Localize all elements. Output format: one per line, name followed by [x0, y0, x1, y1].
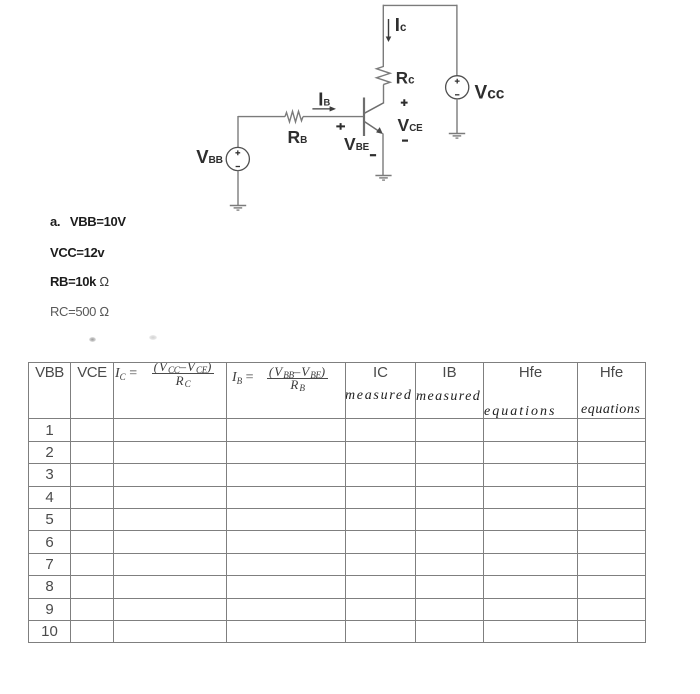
- ground (emitter): [375, 176, 391, 181]
- label - (VBE minus): [370, 154, 376, 156]
- data table: [28, 362, 646, 643]
- label - (VCE minus): [402, 140, 408, 142]
- wire RB to transistor base: [303, 116, 364, 118]
- label Ic: [395, 14, 407, 35]
- current arrow Ic: [386, 19, 392, 42]
- wire top horizontal (collector branch to Vcc branch): [383, 4, 457, 6]
- transistor emitter arrowhead: [376, 127, 383, 134]
- wire Vcc branch vertical: [456, 5, 458, 76]
- resistor RB: [285, 111, 303, 122]
- label VCE: [398, 115, 424, 135]
- svg-text:IB: IB: [318, 89, 330, 110]
- wire RC bottom to collector: [383, 85, 385, 103]
- source VCC polarity marks: [455, 79, 460, 95]
- svg-text:RB: RB: [288, 127, 308, 147]
- wire emitter vertical: [382, 133, 384, 175]
- wire VBB branch vertical top: [237, 116, 239, 147]
- ground (VCC): [449, 134, 465, 139]
- label RC: [396, 69, 415, 88]
- label VBE: [344, 134, 370, 154]
- source VBB polarity marks: [235, 150, 240, 166]
- label IB: [318, 89, 330, 110]
- svg-text:VBB: VBB: [196, 146, 222, 167]
- parameter text block: [50, 214, 126, 229]
- current arrow IB: [312, 106, 336, 111]
- stray pen smudge 2: [149, 335, 157, 340]
- transistor Q1: [364, 98, 384, 137]
- ground (VBB): [230, 206, 246, 211]
- label VBB: [196, 146, 222, 167]
- source VCC circle: [446, 76, 469, 99]
- wire VCC to ground: [456, 99, 458, 133]
- label RB: [288, 127, 308, 147]
- wire collector branch vertical (top to RC): [382, 5, 384, 67]
- svg-text:Vcc: Vcc: [475, 83, 505, 104]
- wire base node to RB: [238, 116, 285, 118]
- label Vcc: [475, 83, 505, 104]
- svg-text:Rc: Rc: [396, 69, 415, 88]
- svg-text:VBE: VBE: [344, 134, 370, 154]
- svg-text:Ic: Ic: [395, 14, 407, 35]
- wire VBB to ground: [237, 171, 239, 206]
- source VBB circle: [226, 147, 249, 170]
- label + (VBE plus): [336, 123, 345, 130]
- svg-text:VCE: VCE: [398, 115, 424, 135]
- resistor RC: [377, 67, 391, 85]
- stray pen smudge 1: [89, 337, 96, 342]
- label + (VCE plus): [401, 99, 408, 106]
